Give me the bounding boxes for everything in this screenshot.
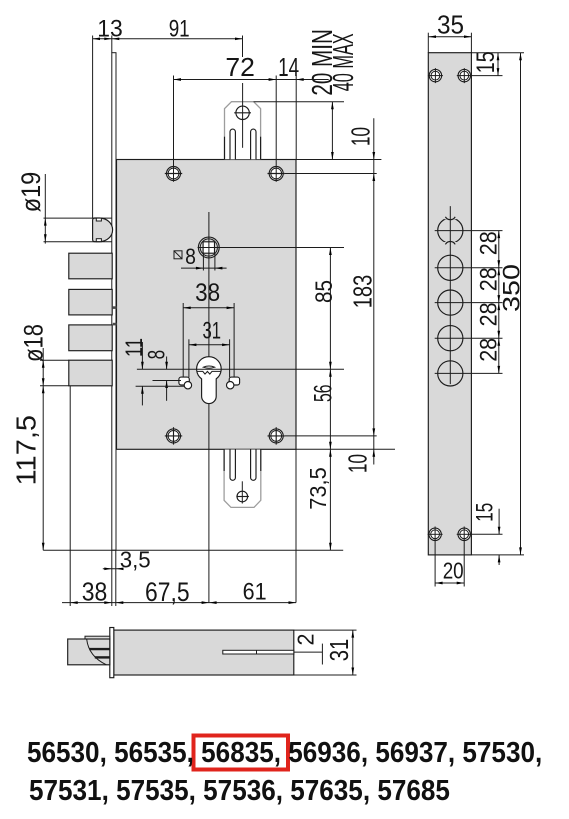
bottom view body	[114, 630, 294, 675]
bottom view faceplate bar	[110, 628, 114, 678]
dim 350	[519, 53, 522, 555]
top mounting tab	[225, 102, 261, 160]
svg-text:40 MAX: 40 MAX	[328, 33, 360, 91]
bottom view key slot	[223, 650, 294, 654]
svg-text:28: 28	[475, 231, 502, 255]
svg-text:3,5: 3,5	[120, 547, 151, 573]
dim chain 38/67,5/61	[62, 601, 296, 604]
dim 3,5	[103, 567, 124, 570]
svg-text:15: 15	[472, 51, 500, 73]
spindle square hole	[198, 237, 219, 258]
bolt extension lines for dia18	[40, 359, 69, 361]
lock body	[117, 160, 297, 450]
bottom tab screw hole	[236, 491, 249, 502]
dim 11 vertical (notch)	[136, 342, 185, 405]
keyhole side notches	[179, 377, 192, 389]
faceplate slot marks	[113, 306, 117, 309]
svg-text:11: 11	[121, 338, 148, 357]
side circle center ext lines	[435, 230, 503, 232]
svg-text:61: 61	[243, 579, 267, 606]
euro cylinder keyhole	[197, 357, 222, 404]
svg-text:38: 38	[195, 279, 220, 307]
ext line body bottom right	[296, 448, 395, 450]
bottom tab centerline	[241, 481, 243, 503]
bottom view latch spring strip	[85, 636, 110, 639]
ext line bottom screw row right	[285, 435, 377, 437]
dim line 72/14	[174, 78, 329, 81]
bottom view ext lines	[294, 629, 357, 631]
side plate	[428, 53, 471, 555]
bottom mounting tab	[224, 450, 261, 508]
square-8 dim (spindle)	[181, 254, 227, 271]
svg-text:8: 8	[185, 244, 196, 269]
dim 85/56/73,5 line	[329, 248, 332, 551]
bottom tab slots	[230, 450, 256, 481]
dim 31 (bottom view)	[351, 630, 354, 675]
svg-text:28: 28	[475, 338, 502, 362]
svg-text:117,5: 117,5	[11, 415, 42, 486]
top tab slots	[230, 129, 256, 159]
svg-text:72: 72	[225, 52, 255, 82]
svg-text:14: 14	[278, 52, 299, 82]
ext line tab top	[254, 101, 344, 103]
label square 8	[174, 244, 196, 269]
svg-text:73,5: 73,5	[305, 467, 331, 510]
svg-text:13: 13	[97, 16, 123, 43]
dim 20	[435, 527, 464, 587]
red highlight box	[194, 736, 289, 770]
bolt tip ext line down	[69, 386, 71, 606]
latch extension lines	[44, 217, 112, 219]
body right ext line down	[295, 449, 297, 602]
dim 38 (spindle)	[183, 303, 234, 377]
faceplate strip	[112, 53, 116, 551]
svg-text:350: 350	[499, 264, 526, 312]
svg-text:38: 38	[82, 577, 108, 607]
ext lines through top screws	[173, 76, 175, 182]
latch bolt	[93, 218, 113, 242]
top tab screw hole	[234, 106, 251, 119]
dim 28 chain	[497, 231, 500, 374]
svg-text:10: 10	[342, 454, 372, 473]
ext line faceplate top	[111, 36, 113, 53]
side screws top	[428, 68, 443, 83]
ext line body top right	[296, 159, 381, 161]
ext line latch tip	[92, 36, 94, 219]
ext line top screw row right	[285, 173, 377, 175]
dia18 + 117,5 dim line	[42, 348, 45, 550]
deadbolts (4)	[69, 253, 112, 279]
part numbers line 2	[29, 775, 450, 808]
svg-text:31: 31	[203, 318, 222, 345]
faceplate bottom extension line	[43, 549, 343, 551]
dim 8 vertical (notch)	[153, 357, 182, 401]
dim line 13/91	[93, 37, 243, 40]
dim 15 top	[471, 53, 524, 76]
dia19 dim	[44, 174, 47, 244]
side circles	[438, 255, 463, 280]
side cam disc circle	[438, 215, 463, 247]
spindle horizontal centerline / 85 extension	[198, 247, 344, 249]
svg-text:2: 2	[293, 634, 319, 646]
svg-text:67,5: 67,5	[145, 577, 190, 607]
dim 10 top / 183 / 10 bottom	[372, 118, 375, 464]
svg-text:183: 183	[347, 275, 377, 309]
body screw holes (4)	[165, 167, 182, 181]
svg-text:ø18: ø18	[19, 324, 49, 362]
svg-text:91: 91	[169, 16, 190, 43]
side centerline	[449, 206, 451, 384]
dim 15 bottom	[471, 509, 524, 565]
bottom view latch	[68, 639, 110, 665]
dim 2 (slot)	[294, 644, 323, 665]
top tab centerline	[242, 83, 244, 148]
dim 35	[428, 33, 471, 53]
dim 31 (keyhole notches)	[189, 339, 230, 377]
svg-text:31: 31	[324, 639, 354, 662]
svg-text:56: 56	[310, 385, 338, 403]
svg-text:85: 85	[311, 280, 338, 303]
side screws bottom	[428, 528, 443, 540]
svg-text:10: 10	[345, 127, 375, 146]
keyhole horizontal centerline	[137, 368, 344, 370]
ext line body right top corner	[295, 76, 297, 160]
dim 20MIN/40MAX	[331, 102, 334, 160]
part numbers line 1	[27, 737, 542, 770]
svg-text:20: 20	[443, 557, 464, 583]
svg-text:15: 15	[472, 503, 499, 522]
main vertical centerline	[208, 212, 210, 603]
faceplate ext lines down	[111, 550, 113, 606]
svg-text:35: 35	[437, 10, 464, 40]
ext line tab centerline top	[242, 36, 244, 58]
svg-text:ø19: ø19	[16, 172, 46, 213]
